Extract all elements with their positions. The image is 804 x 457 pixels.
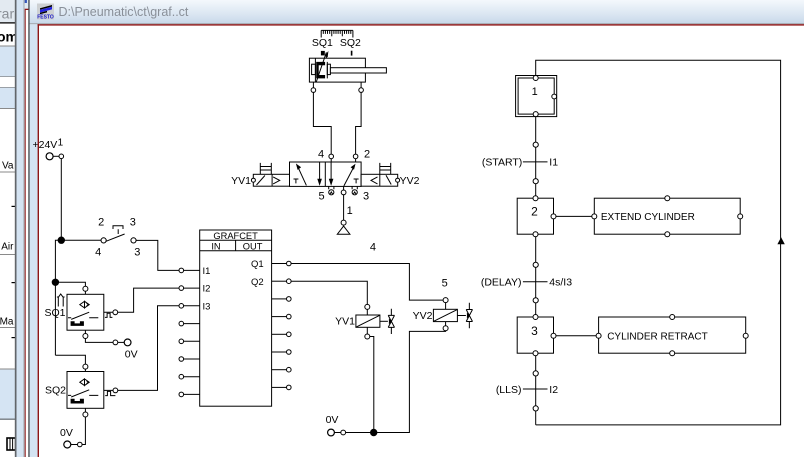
SQ1 position marker <box>321 51 329 58</box>
svg-text:Q2: Q2 <box>251 277 264 288</box>
svg-text:CYLINDER RETRACT: CYLINDER RETRACT <box>607 331 708 342</box>
pin IN4 stub <box>179 321 200 326</box>
wire step2 to action <box>556 215 592 217</box>
valve link symbol YV1 <box>380 309 395 334</box>
svg-text:Q1: Q1 <box>251 259 264 270</box>
exhaust port 3 <box>352 186 357 195</box>
svg-text:5: 5 <box>319 191 325 203</box>
sensor SQ2 <box>45 372 104 409</box>
solenoid coil YV2 <box>413 298 458 323</box>
pin I3 stub <box>179 304 200 309</box>
svg-text:2: 2 <box>98 217 104 229</box>
valve V1 5/2-way body <box>290 162 362 186</box>
pin OUT5 stub <box>272 332 292 337</box>
svg-text:1: 1 <box>347 205 353 217</box>
svg-text:GRAFCET: GRAFCET <box>213 231 258 241</box>
FESTO icon <box>37 4 54 21</box>
port 1 to air supply <box>341 186 346 220</box>
node SQ1 output pin <box>113 310 118 315</box>
node link T2-3 <box>533 298 538 303</box>
SFC spine wire <box>535 117 537 425</box>
svg-text:Va: Va <box>2 161 14 172</box>
svg-text:SQ2: SQ2 <box>340 37 361 49</box>
pin IN8 stub <box>179 392 200 397</box>
wire YV2 bottom to 0V rail <box>346 322 446 433</box>
svg-text:2: 2 <box>364 149 370 161</box>
solenoid YV2 (valve right) <box>361 163 420 187</box>
wire cylinder left port to valve port 4 <box>311 82 331 154</box>
svg-text:4: 4 <box>95 246 101 258</box>
node link T3-loop <box>533 406 538 411</box>
svg-text:YV1: YV1 <box>231 175 251 187</box>
wire +24V rail down <box>60 159 62 241</box>
terminal 0V (rail) <box>326 414 346 436</box>
valve link symbol YV2 <box>457 303 472 329</box>
node valve port 2 <box>353 154 358 162</box>
junction to SQ1 <box>52 279 58 285</box>
feedback arrow up <box>777 237 784 244</box>
exhaust port 5 <box>329 186 334 195</box>
node YV1 bottom pin <box>365 334 370 339</box>
wire rail to SQ2 top <box>55 355 85 364</box>
svg-text:SQ1: SQ1 <box>44 307 65 319</box>
junction YV1/0V rail <box>371 429 377 435</box>
svg-text:OUT: OUT <box>243 241 263 251</box>
svg-text:1: 1 <box>532 86 538 98</box>
pushbutton S1 <box>95 217 140 259</box>
svg-text:4s/I3: 4s/I3 <box>549 277 572 289</box>
action box EXTEND CYLINDER <box>592 196 743 237</box>
sensor SQ1 <box>44 294 103 330</box>
pin IN6 stub <box>179 357 200 362</box>
gap strip between windows <box>17 0 24 457</box>
node link 1-T1 <box>533 142 538 147</box>
svg-text:I1: I1 <box>549 157 558 169</box>
compressed air source <box>337 220 350 234</box>
terminal 0V (SQ1) <box>113 339 138 361</box>
svg-text:3: 3 <box>130 217 136 229</box>
wire rail jog down <box>55 240 61 355</box>
svg-text:1: 1 <box>58 138 64 149</box>
wire pushbutton to I1 <box>136 240 179 270</box>
svg-text:(DELAY): (DELAY) <box>481 277 522 289</box>
SFC step 2 <box>517 196 556 237</box>
wire Q1 to YV2 coil <box>291 264 443 301</box>
svg-text:+24V: +24V <box>33 139 58 151</box>
svg-text:I2: I2 <box>549 384 558 396</box>
terminal 0V (SQ2) <box>60 427 82 448</box>
svg-text:Ma: Ma <box>0 317 14 328</box>
svg-text:(START): (START) <box>482 157 522 169</box>
svg-text:IN: IN <box>211 241 220 251</box>
pin OUT7 stub <box>272 367 292 372</box>
distance ruler scale <box>321 30 353 37</box>
svg-text:FESTO: FESTO <box>37 15 54 21</box>
node YV2 bottom pin <box>443 326 448 331</box>
svg-text:I2: I2 <box>203 284 211 295</box>
svg-text:3: 3 <box>134 246 140 258</box>
node link 2-T2 <box>533 262 538 267</box>
pin OUT3 stub <box>272 297 292 302</box>
svg-text:2: 2 <box>531 205 538 219</box>
solenoid coil YV1 <box>335 304 380 327</box>
svg-text:3: 3 <box>531 324 538 338</box>
pin I2 stub <box>179 286 200 291</box>
pin I1 stub <box>179 268 200 273</box>
node link T1-2 <box>533 179 538 184</box>
solenoid YV1 (valve left) <box>231 163 289 187</box>
svg-text:0V: 0V <box>60 427 73 439</box>
action box CYLINDER RETRACT <box>596 315 748 356</box>
node link 3-T3 <box>533 371 538 376</box>
svg-text:YV1: YV1 <box>335 315 355 327</box>
pin Q1 stub <box>272 261 292 266</box>
svg-text:EXTEND CYLINDER: EXTEND CYLINDER <box>601 212 695 223</box>
svg-text:0V: 0V <box>125 349 138 361</box>
svg-text:4: 4 <box>318 149 324 161</box>
pin OUT4 stub <box>272 314 292 319</box>
svg-text:I3: I3 <box>203 301 211 312</box>
svg-text:YV2: YV2 <box>400 175 420 187</box>
wire junction to pushbutton <box>61 239 101 241</box>
SQ2 position marker <box>351 51 353 56</box>
cylinder A1 <box>309 52 386 82</box>
node SQ2 output pin <box>113 388 118 393</box>
svg-text:YV2: YV2 <box>413 310 433 322</box>
svg-text:SQ1: SQ1 <box>312 37 333 49</box>
wire SQ1 output to I2 <box>104 288 179 312</box>
wire junction to SQ1 top <box>55 282 85 286</box>
SFC step 1 (initial) <box>516 76 557 117</box>
svg-text:0V: 0V <box>326 414 339 426</box>
back window sliver with red page border <box>25 0 29 457</box>
svg-text:rar: rar <box>0 6 14 22</box>
pin OUT6 stub <box>272 350 292 355</box>
pin IN7 stub <box>179 374 200 379</box>
transition T2 (DELAY) <box>481 277 572 289</box>
front window frame <box>28 0 30 457</box>
svg-text:(LLS): (LLS) <box>496 384 522 396</box>
wire cylinder right port to valve port 2 <box>356 82 364 154</box>
node SQ2 bottom pin <box>83 412 88 417</box>
pin Q2 stub <box>272 279 292 284</box>
svg-text:SQ2: SQ2 <box>45 385 66 397</box>
wire SQ1 bottom to 0V <box>85 330 113 342</box>
junction to pushbutton <box>58 237 64 243</box>
GRAFCET controller U1 <box>200 230 272 406</box>
svg-text:3: 3 <box>363 191 369 203</box>
node SQ1 top pin <box>83 286 88 291</box>
transition T1 (START) <box>482 157 558 169</box>
pin OUT8 stub <box>272 385 292 390</box>
svg-text:D:\Pneumatic\ct\graf..ct: D:\Pneumatic\ct\graf..ct <box>59 5 189 19</box>
left library panel (background app) <box>0 0 17 22</box>
wire SQ2 bottom to 0V <box>82 408 85 444</box>
terminal +24V <box>33 138 64 160</box>
node SQ2 top pin <box>83 364 88 369</box>
SFC step 3 <box>517 315 556 356</box>
svg-text:5: 5 <box>442 277 448 289</box>
pin IN5 stub <box>179 339 200 344</box>
node SQ1 bottom pin <box>83 334 88 339</box>
node valve port 4 <box>329 154 334 162</box>
wire SQ2 output to I3 <box>104 306 179 391</box>
transition T3 (LLS) <box>496 384 558 396</box>
wire YV1 bottom to 0V rail <box>367 327 374 432</box>
SFC feedback loop wire <box>536 60 781 425</box>
svg-text:I1: I1 <box>203 266 211 277</box>
pulse edge symbol SQ2 <box>105 391 115 395</box>
pulse edge symbol SQ1 <box>105 313 113 317</box>
front window titlebar <box>30 0 804 23</box>
wire Q2 to YV1 coil <box>291 281 367 304</box>
svg-text:Air: Air <box>1 242 14 253</box>
wire step3 to action <box>556 335 596 337</box>
svg-text:4: 4 <box>370 241 376 253</box>
